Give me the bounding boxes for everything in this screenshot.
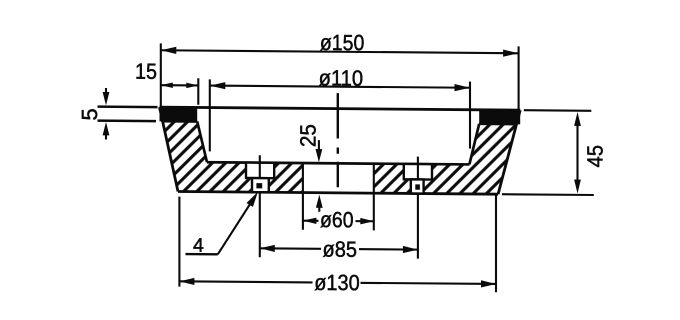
dimension ø85 arrow right bbox=[403, 246, 418, 253]
dimension ø110 arrow right bbox=[455, 84, 471, 91]
recess floor line bbox=[207, 162, 469, 164]
svg-text:25: 25 bbox=[296, 124, 321, 147]
dimension ø150 arrow left bbox=[161, 47, 177, 54]
dimension ø110 line bbox=[210, 86, 470, 88]
dimension ø60 arrow right bbox=[360, 218, 374, 225]
dimension 5 upper arrow bbox=[105, 88, 107, 95]
svg-text:ø150: ø150 bbox=[320, 30, 365, 55]
dimension ø130 arrow right bbox=[481, 280, 496, 287]
hatch left body section bbox=[163, 121, 303, 192]
insert right center dot bbox=[415, 184, 420, 189]
dimension ø110 arrow left bbox=[210, 82, 226, 89]
svg-text:ø130: ø130 bbox=[314, 270, 360, 295]
dimension 45 arrow down bbox=[574, 180, 581, 194]
dimension 5 lower arrow bbox=[105, 133, 107, 140]
dimension ø60 line bbox=[303, 220, 374, 223]
dimension ø150 arrow right bbox=[503, 50, 518, 57]
dimension ø130 extension line right bbox=[495, 195, 497, 292]
recess wall right bbox=[469, 124, 479, 165]
svg-text:15: 15 bbox=[135, 59, 157, 84]
dimension 45 arrow up bbox=[574, 112, 581, 126]
centerline dash bottom bbox=[337, 162, 339, 188]
insert right lower square bbox=[411, 179, 424, 193]
dimension 5 lower extension line bbox=[98, 119, 157, 122]
outer wall left bbox=[160, 107, 179, 191]
svg-text:ø110: ø110 bbox=[319, 65, 364, 90]
insert right upper slot bbox=[404, 164, 432, 180]
centerline dot bbox=[337, 147, 339, 153]
dimension ø110 extension line right bbox=[469, 82, 471, 149]
bore edge right / ø60 extension bbox=[373, 164, 375, 231]
dimension ø85 extension line right bbox=[417, 157, 419, 180]
dimension ø130 arrow left bbox=[179, 278, 194, 285]
insert left center dot bbox=[256, 183, 262, 188]
rim line under left segment bbox=[163, 120, 198, 123]
abrasive segment right (black) bbox=[479, 109, 520, 125]
dimension ø60 text bbox=[319, 212, 356, 230]
label 4 leader line bbox=[218, 198, 254, 254]
dimension ø85 extension line left bbox=[259, 155, 261, 178]
svg-text:5: 5 bbox=[77, 108, 102, 120]
insert left upper slot bbox=[246, 163, 274, 179]
dimension 45 upper extension line bbox=[524, 109, 592, 112]
rim line under right segment bbox=[479, 122, 516, 125]
wheel bottom line bbox=[178, 192, 498, 195]
dimension ø130 text bbox=[313, 274, 361, 292]
centerline dash top bbox=[337, 93, 339, 138]
svg-text:45: 45 bbox=[583, 145, 608, 168]
outer wall right bbox=[498, 110, 520, 194]
dimension 45 lower extension line bbox=[502, 193, 594, 196]
dimension ø150 extension line left bbox=[160, 43, 162, 106]
svg-text:ø60: ø60 bbox=[320, 207, 354, 232]
dimension ø150 line bbox=[161, 50, 519, 53]
insert left lower square bbox=[252, 178, 269, 192]
dimension ø150 extension line right bbox=[518, 46, 520, 109]
dimension ø60 arrow left bbox=[303, 217, 317, 224]
dimension 5 upper extension line bbox=[98, 105, 158, 108]
dimension ø130 extension line left bbox=[178, 197, 180, 287]
dimension ø110 extension line left bbox=[209, 79, 211, 151]
label 4 leader arrowhead bbox=[247, 192, 259, 207]
dimension ø85 text bbox=[321, 240, 359, 258]
dimension ø85 arrow left bbox=[260, 245, 275, 252]
hatch right body section bbox=[374, 123, 517, 194]
svg-text:ø85: ø85 bbox=[323, 237, 358, 262]
dimension 15 arrow left bbox=[161, 82, 173, 88]
dimension ø85 line bbox=[260, 248, 418, 249]
dimension ø130 line bbox=[179, 281, 496, 284]
bore edge left / ø60 extension bbox=[302, 163, 304, 230]
recess wall left bbox=[197, 121, 207, 162]
label 4 underline bbox=[186, 253, 218, 256]
dimension 15 arrow right bbox=[186, 83, 198, 89]
dimension 25 lower arrow bbox=[318, 205, 320, 213]
dimension 15 tick bbox=[197, 78, 199, 105]
dimension 45 line bbox=[576, 123, 578, 182]
wheel top surface line bbox=[160, 107, 521, 110]
abrasive segment left (black) bbox=[160, 106, 198, 122]
dimension 15 line with double arrow bbox=[161, 84, 199, 86]
dimension 25 upper arrow bbox=[318, 140, 320, 151]
